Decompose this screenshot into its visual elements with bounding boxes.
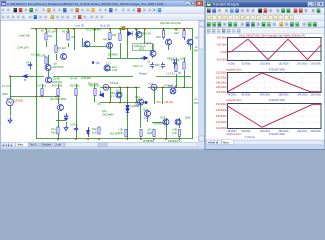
wire node N11: [156, 76, 191, 78]
svg-text:Q1A: Q1A: [144, 116, 149, 120]
tab bar: [1, 142, 205, 147]
svg-text:◄◄►►: ◄◄►►: [207, 141, 218, 145]
wire mid rail right: [148, 87, 193, 89]
waveform v(E) plot 2: [228, 73, 322, 92]
svg-text:148.000m: 148.000m: [216, 109, 227, 112]
wire: [48, 55, 50, 65]
wire: [184, 29, 186, 40]
wire: [127, 112, 129, 139]
wire: [100, 91, 102, 96]
junction: [175, 86, 177, 88]
svg-text:H2O: H2O: [51, 131, 56, 135]
plot 1 frame: [228, 38, 322, 61]
wire: [184, 70, 186, 87]
svg-text:Probal: Probal: [139, 72, 147, 76]
svg-text:H4.9V: H4.9V: [103, 38, 110, 42]
resistor R28: [178, 130, 180, 137]
svg-text:Rxx = +40 mA: Rxx = +40 mA: [157, 100, 174, 104]
wire: [42, 84, 44, 88]
wire: [94, 29, 96, 42]
resistor R12: [162, 31, 164, 38]
svg-text:298.000u: 298.000u: [311, 130, 322, 133]
svg-text:R19 4k1: R19 4k1: [70, 84, 80, 88]
wire node N8: [152, 122, 163, 124]
wire: [120, 43, 122, 58]
junction: [127, 138, 129, 140]
app icon: [207, 2, 211, 6]
wire: [136, 29, 138, 40]
wire: [58, 96, 60, 105]
right toolbar icons row 1: [207, 9, 211, 13]
transistor Q16: [145, 111, 151, 117]
wire: [184, 29, 186, 31]
wire: [140, 103, 142, 128]
svg-text:PL: PL: [179, 71, 183, 75]
wire: [110, 87, 112, 102]
svg-text:F*(E(SF*uPD): F*(E(SF*uPD): [269, 132, 285, 136]
junction: [119, 28, 121, 30]
wire: [176, 74, 178, 87]
toolbar row 2: [1, 14, 205, 21]
svg-text:0.000: 0.000: [221, 50, 228, 54]
svg-text:144.000m: 144.000m: [216, 91, 227, 94]
svg-text:22H,2K0 22H,2K0: 22H,2K0 22H,2K0: [160, 21, 181, 25]
svg-text:50.000u: 50.000u: [242, 63, 252, 66]
svg-text:+2B: +2B: [172, 128, 177, 132]
junction: [67, 28, 69, 30]
svg-text:Q5 BF: Q5 BF: [53, 77, 61, 81]
plot 1 zero line: [228, 51, 322, 53]
junction: [127, 86, 129, 88]
svg-text:F*(E(SF*uPD): F*(E(SF*uPD): [269, 68, 285, 72]
junction: [127, 28, 129, 30]
svg-text:2SCE2O4: 2SCE2O4: [168, 139, 180, 143]
svg-text:CC4+L: CC4+L: [70, 123, 79, 127]
junction: [9, 75, 11, 77]
junction: [153, 138, 155, 140]
wire: [36, 29, 38, 139]
wire: [152, 57, 154, 59]
node B arrow: [23, 76, 28, 78]
right toolbar icons row 2: [207, 16, 211, 20]
close button: [196, 1, 203, 5]
svg-text:+Ca: +Ca: [148, 82, 153, 86]
schematic canvas: [1, 21, 199, 142]
wire: [46, 29, 48, 33]
svg-text:BYW99(A-R): BYW99(A-R): [136, 32, 151, 36]
wire: [162, 87, 164, 104]
current source I1: [170, 88, 176, 94]
right toolbar icons row 3: [207, 22, 211, 26]
wire: [169, 45, 191, 50]
wire: [184, 58, 186, 62]
svg-text:152.000m: 152.000m: [216, 72, 227, 75]
svg-text:98.000u: 98.000u: [242, 94, 252, 97]
svg-text:0.000u: 0.000u: [228, 63, 236, 66]
svg-text:B4F: B4F: [155, 63, 160, 67]
junction: [175, 28, 177, 30]
svg-text:150.000u: 150.000u: [278, 63, 289, 66]
junction: [183, 86, 185, 88]
svg-text:R17 4u1: R17 4u1: [37, 84, 47, 88]
junction: [183, 28, 185, 30]
resistor R25: [153, 130, 155, 137]
transistor Q8: [104, 65, 110, 71]
transistor Q1A: [163, 119, 169, 125]
capacitor C3: [64, 114, 68, 120]
resistor R13: [183, 31, 185, 38]
plot 2 x labels: [228, 94, 322, 97]
transistor Q1B: [175, 119, 181, 125]
plot 2 grid: [228, 72, 322, 92]
svg-text:◄◄►►: ◄◄►►: [2, 143, 13, 147]
diode D9: [100, 93, 104, 97]
svg-text:4k7: 4k7: [71, 35, 76, 39]
svg-text:HCO +J: HCO +J: [133, 64, 143, 68]
plot 2 frame: [228, 73, 322, 93]
svg-text:20V: 20V: [194, 101, 199, 105]
svg-text:R18 1H2: R18 1H2: [52, 84, 63, 88]
wire node N1: [10, 96, 60, 98]
svg-text:100.000u: 100.000u: [260, 63, 271, 66]
junction: [57, 138, 59, 140]
wire: [66, 122, 68, 124]
wire: [184, 38, 186, 40]
vertical scrollbar: [199, 21, 205, 142]
svg-text:148.000m: 148.000m: [216, 81, 227, 84]
svg-text:C:\MC10\DJ\'s Pecos\Peco\'s Ra: C:\MC10\DJ\'s Pecos\Peco\'s Radiateurs\B…: [7, 2, 166, 6]
junction: [75, 138, 77, 140]
max button: [191, 1, 196, 5]
resistor R22: [98, 127, 100, 134]
title bar: [1, 1, 205, 7]
capacitor C9: [173, 60, 177, 68]
bottom frame strip: [206, 145, 325, 149]
capacitor C8: [161, 62, 165, 68]
resistor R8: [109, 33, 111, 40]
svg-text:100.00m: 100.00m: [217, 43, 227, 47]
junction: [55, 28, 57, 30]
wire +V rail: [31, 28, 193, 30]
svg-text:V1: V1: [7, 97, 11, 101]
svg-text:Main: Main: [17, 143, 23, 147]
svg-text:mcplot2.10m: mcplot2.10m: [226, 132, 242, 136]
svg-text:98.000u: 98.000u: [242, 130, 252, 133]
polarity marker: [122, 27, 125, 30]
wire: [10, 106, 12, 116]
resistor R17: [41, 89, 43, 96]
wire node N2: [10, 76, 44, 78]
wire: [127, 29, 129, 58]
junction: [144, 28, 146, 30]
wire: [68, 29, 70, 33]
wire: [120, 87, 122, 102]
transistor Q14: [138, 99, 144, 105]
svg-text:+1B: +1B: [118, 128, 123, 132]
wire node N9: [56, 120, 66, 122]
svg-text:+24 H16: +24 H16: [153, 122, 163, 126]
svg-text:22H4,1H0: 22H4,1H0: [17, 46, 29, 50]
svg-text:Q14: Q14: [135, 95, 140, 99]
wire: [179, 137, 181, 139]
svg-text:D2 1N4148A: D2 1N4148A: [86, 28, 101, 32]
svg-text:+a.b 1D: +a.b 1D: [75, 24, 84, 28]
svg-text:Q1n: Q1n: [102, 109, 107, 113]
svg-text:-100.00m: -100.00m: [216, 57, 227, 61]
svg-text:R3 4k7: R3 4k7: [62, 30, 71, 34]
transistor Q9: [136, 32, 142, 38]
plot 2 y labels: [216, 72, 227, 94]
wire: [74, 29, 76, 50]
svg-text:C6: C6: [147, 60, 151, 64]
svg-text:Hc.b_1D: Hc.b_1D: [100, 24, 110, 28]
resistor R4: [55, 46, 57, 53]
junction: [127, 102, 129, 104]
ground: [8, 117, 12, 123]
bottom frame strip: [1, 147, 205, 149]
svg-text:Peco_PASST-036_-50mV-triangle_: Peco_PASST-036_-50mV-triangle_Xta_4MHz+1…: [239, 34, 305, 37]
svg-text:R4 1k0: R4 1k0: [58, 46, 67, 50]
source V1: [7, 99, 14, 106]
svg-text:220: 220: [112, 33, 117, 37]
transistor Q10: [61, 54, 67, 60]
tab bar: [206, 140, 325, 145]
plot 1 y labels: [216, 35, 228, 61]
junction: [41, 96, 43, 98]
plot 3 grid: [228, 104, 322, 129]
transistor Q12: [187, 39, 193, 45]
svg-text:150.000m: 150.000m: [216, 76, 227, 79]
transistor Q6: [58, 105, 64, 111]
wire: [176, 58, 178, 64]
wire: [10, 76, 12, 98]
transistor Q2: [84, 41, 90, 47]
wire node N6: [100, 102, 146, 104]
svg-text:1uD: 1uD: [172, 131, 177, 135]
transistor Q23: [150, 51, 156, 57]
node IN arrow: [141, 57, 147, 59]
resistor R20: [94, 89, 96, 96]
svg-text:Info: Info: [57, 143, 62, 147]
svg-text:Q6 2SA1145A: Q6 2SA1145A: [50, 97, 67, 101]
capacitor C4: [28, 62, 32, 69]
junction: [163, 28, 165, 30]
resistor R15: [175, 65, 177, 72]
resistor R18: [57, 89, 59, 96]
svg-text:(P) 4P: (P) 4P: [70, 77, 78, 81]
label 100mA/4A Q23: [133, 44, 154, 50]
wire node N10: [53, 76, 133, 78]
svg-text:150.000m: 150.000m: [216, 103, 227, 106]
resistor R2: [45, 33, 47, 40]
svg-text:200.000u: 200.000u: [297, 63, 308, 66]
window body: [205, 1, 325, 150]
junction: [119, 102, 121, 104]
wire: [88, 127, 90, 130]
capacitor CC4: [74, 126, 78, 132]
plot 1 x labels: [228, 63, 322, 66]
waveform v(X) plot 1: [228, 39, 322, 59]
svg-text:B: B: [24, 78, 26, 82]
junction: [98, 138, 100, 140]
svg-text:250.000u: 250.000u: [311, 63, 322, 66]
junction: [109, 86, 111, 88]
diode D4: [128, 31, 133, 36]
source V3: [151, 84, 157, 90]
source V5: [103, 84, 109, 90]
svg-text:Q16: Q16: [143, 108, 148, 112]
junction: [183, 28, 185, 30]
svg-text:C7 1u7: C7 1u7: [2, 84, 11, 88]
svg-text:2SCH4B4: 2SCH4B4: [102, 113, 114, 117]
wire: [166, 125, 168, 139]
diode D6: [126, 109, 129, 113]
min button: [185, 1, 190, 5]
svg-text:Q23: Q23: [139, 47, 144, 51]
junction: [119, 86, 121, 88]
right toolbar icons row 4: [207, 29, 210, 33]
resistor R21: [57, 127, 59, 134]
junction: [179, 138, 181, 140]
wire -V rail: [36, 138, 193, 140]
junction: [35, 96, 37, 98]
wire: [154, 129, 156, 137]
junction: [140, 138, 142, 140]
junction: [165, 138, 167, 140]
diode D7: [65, 116, 68, 120]
plot 3 y labels: [216, 103, 227, 130]
capacitor C6: [150, 62, 154, 68]
svg-text:146.000m: 146.000m: [216, 86, 227, 89]
svg-text:248.000u: 248.000u: [297, 130, 308, 133]
svg-text:144.000m: 144.000m: [216, 121, 227, 124]
svg-text:248.000u: 248.000u: [297, 94, 308, 97]
transistor Q7: [116, 92, 122, 98]
svg-text:F*(E(SF*uPD): F*(E(SF*uPD): [269, 98, 285, 102]
resistor R23: [125, 130, 127, 137]
svg-text:R1b: R1b: [92, 127, 97, 131]
waveform v(PD) plot 3: [228, 104, 322, 127]
svg-text:Main: Main: [223, 140, 229, 144]
wire: [110, 29, 112, 32]
svg-text:R4B 1.05: R4B 1.05: [106, 68, 117, 72]
svg-text:H22: H22: [174, 31, 179, 35]
junction: [135, 28, 137, 30]
junction: [109, 102, 111, 104]
wire: [144, 29, 146, 44]
svg-text:NeB: NeB: [147, 131, 152, 135]
svg-text:1uD: 1uD: [92, 131, 97, 135]
svg-text:Q9: Q9: [135, 28, 139, 32]
wire: [76, 96, 78, 140]
svg-text:48.000u: 48.000u: [228, 94, 238, 97]
resistor R19: [75, 89, 77, 96]
wire: [68, 43, 70, 47]
svg-text:Q23: Q23: [146, 41, 151, 45]
wire: [136, 87, 138, 102]
junction: [162, 86, 164, 88]
toolbar row 1: [1, 7, 205, 14]
wire: [42, 96, 44, 97]
svg-text:200.00m: 200.00m: [217, 35, 227, 39]
svg-text:Text 1: Text 1: [30, 143, 38, 147]
resistor R3: [67, 33, 69, 40]
junction: [45, 28, 47, 30]
junction: [35, 28, 37, 30]
junction: [105, 86, 107, 88]
wire: [110, 42, 112, 58]
svg-text:T (Secs): T (Secs): [245, 135, 255, 139]
node BQ square: [92, 61, 94, 63]
svg-text:142.000m: 142.000m: [216, 127, 227, 130]
junction: [73, 28, 75, 30]
wire: [166, 118, 168, 125]
wire: [147, 117, 149, 122]
svg-text:2SA1145A: 2SA1145A: [50, 80, 62, 84]
wire: [163, 29, 165, 31]
min/max/close buttons: [308, 2, 313, 6]
junction: [94, 28, 96, 30]
svg-text:2N3H08: 2N3H08: [108, 53, 118, 57]
wire: [94, 96, 96, 103]
svg-text:+8u6 14h: +8u6 14h: [19, 34, 30, 38]
svg-text:+2A: +2A: [134, 103, 139, 107]
svg-text:198.000u: 198.000u: [278, 94, 289, 97]
wire: [58, 84, 60, 88]
wire: [56, 54, 58, 60]
wire: [140, 137, 142, 139]
svg-text:mcplot4.10m: mcplot4.10m: [226, 68, 242, 72]
svg-text:4kB: 4kB: [118, 131, 123, 135]
wire: [120, 29, 122, 33]
wire: [56, 29, 58, 45]
plot 1 grid: [228, 37, 322, 60]
junction: [135, 86, 137, 88]
wire: [152, 44, 154, 51]
diode D8: [87, 128, 90, 138]
wire: [94, 84, 96, 88]
plot canvas: [206, 34, 324, 140]
svg-text:Q2B: Q2B: [185, 116, 190, 120]
svg-text:1k4: 1k4: [48, 34, 53, 38]
wire: [163, 38, 165, 40]
toolbar icons row 1: [1, 8, 4, 12]
svg-text:Models: Models: [43, 143, 52, 147]
wire: [58, 134, 60, 139]
svg-text:4u2 4D: 4u2 4D: [110, 132, 118, 136]
wire node N7: [83, 46, 107, 48]
svg-text:1k25: 1k25: [180, 57, 186, 61]
junction: [135, 102, 137, 104]
svg-text:R2 1k4: R2 1k4: [48, 30, 57, 34]
plot 3 frame: [228, 104, 322, 129]
svg-text:X2A X0B: X2A X0B: [12, 99, 23, 103]
resistor R16: [45, 57, 47, 64]
svg-text:I.1 T-1v: I.1 T-1v: [166, 72, 175, 76]
svg-text:(B.): (B.): [96, 61, 100, 65]
toolbar rows: [206, 7, 325, 14]
svg-text:2N5B1B4: 2N5B1B4: [143, 139, 155, 143]
svg-text:V5 4u5: V5 4u5: [110, 81, 119, 85]
svg-text:+E1: +E1: [147, 128, 152, 132]
plot 3 x labels: [228, 130, 322, 133]
transistor Q3: [107, 43, 113, 49]
wire: [58, 111, 60, 127]
app icon: [2, 1, 6, 5]
junction: [109, 28, 111, 30]
svg-text:298.000u: 298.000u: [311, 94, 322, 97]
resistor R26: [183, 62, 185, 69]
